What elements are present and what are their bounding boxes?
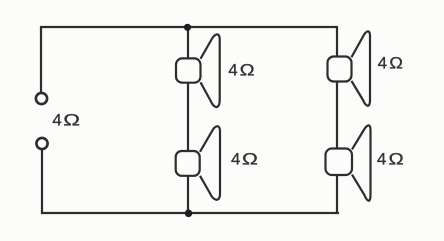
wire left vertical upper (top rail to + terminal) [40,26,42,93]
wire right vertical lower (SP4 to bottom rail) [336,175,338,213]
svg-text:Ω: Ω [242,150,258,169]
value label 4 ohm (SP2) [231,149,258,168]
wire right vertical upper (top rail to SP3) [336,27,338,57]
input terminal bottom [36,138,47,149]
svg-text:Ω: Ω [240,60,255,79]
wire top horizontal (node A rail) [40,26,338,28]
speaker SP2 (bottom middle, 4 ohm) [176,126,220,200]
speaker SP1 (top middle, 4 ohm) [176,34,220,107]
junction dot top (middle branch to top rail) [184,24,191,31]
wire bottom horizontal (node B rail) [41,212,339,214]
speaker SP3 (top right, 4 ohm) [328,31,371,105]
svg-text:4: 4 [231,149,240,168]
svg-text:Ω: Ω [389,53,403,72]
wire middle vertical upper (top rail to SP1) [187,27,189,59]
wire middle vertical center (SP1 to SP2) [187,83,189,152]
speaker SP4 (bottom right, 4 ohm) [326,125,371,200]
value label 4 ohm (SP3) [378,53,403,72]
wire right vertical center (SP3 to SP4) [336,82,338,149]
value label 4 ohm (input impedance) [52,110,80,129]
svg-text:Ω: Ω [389,149,404,168]
svg-text:4: 4 [228,61,237,80]
value label 4 ohm (SP4) [377,149,404,168]
wire left vertical lower (- terminal to bottom rail) [41,150,43,215]
input terminal top [36,93,47,104]
value label 4 ohm (SP1) [228,60,254,80]
svg-text:Ω: Ω [63,111,80,130]
svg-text:4: 4 [52,110,61,129]
junction dot bottom (middle branch to bottom rail) [185,210,193,218]
svg-text:4: 4 [378,54,387,73]
wire middle vertical lower (SP2 to bottom rail) [187,175,189,213]
svg-text:4: 4 [377,149,386,168]
